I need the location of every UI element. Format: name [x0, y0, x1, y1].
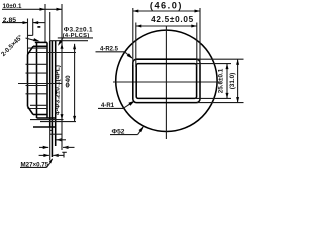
svg-text:10±0.1: 10±0.1 [3, 3, 22, 10]
svg-text:2-0.5×45°: 2-0.5×45° [0, 33, 24, 57]
svg-text:4-Ф3.2±0.1(4PL): 4-Ф3.2±0.1(4PL) [55, 65, 62, 115]
svg-text:2.85: 2.85 [3, 17, 16, 24]
svg-text:42.5±0.05: 42.5±0.05 [151, 15, 194, 24]
svg-text:(4-PLCS): (4-PLCS) [63, 33, 90, 39]
svg-text:25.6±0.1: 25.6±0.1 [218, 68, 225, 93]
svg-text:Ф40: Ф40 [65, 75, 72, 88]
svg-text:(31.0): (31.0) [229, 73, 236, 89]
svg-text:(46.0): (46.0) [150, 1, 183, 11]
